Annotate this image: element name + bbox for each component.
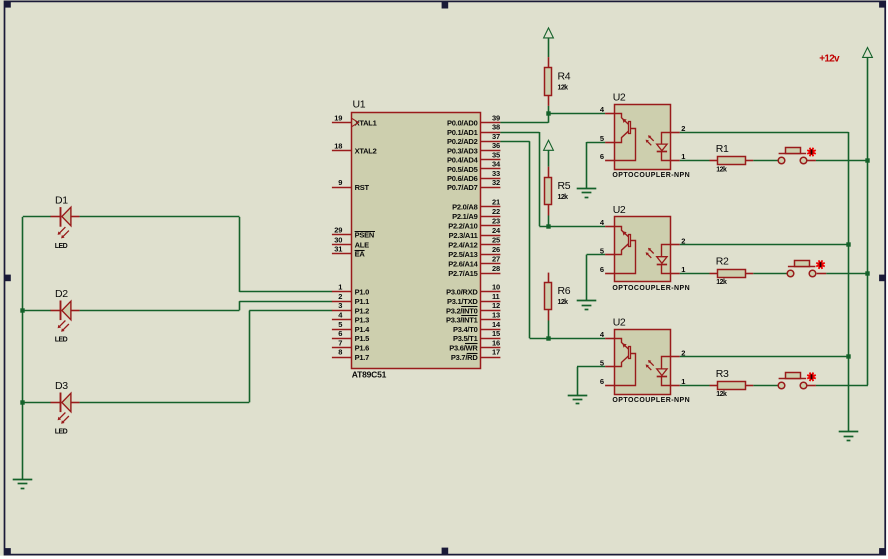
svg-text:LED: LED [55, 429, 68, 436]
U1 pin 31 EA [332, 245, 365, 259]
svg-text:EA: EA [355, 250, 366, 259]
svg-text:6: 6 [600, 377, 604, 386]
wire P0.1 to node B [500, 132, 605, 227]
junction rail-U2c [846, 354, 850, 358]
svg-text:LED: LED [55, 337, 68, 344]
svg-text:P2.3/A11: P2.3/A11 [449, 231, 478, 240]
resistor R3 12k [710, 368, 754, 398]
U1 pin 4 P1.3 [332, 311, 369, 325]
svg-text:P0.2/AD2: P0.2/AD2 [447, 137, 478, 146]
svg-text:P1.3: P1.3 [355, 316, 370, 325]
svg-text:LED: LED [55, 243, 68, 250]
svg-text:36: 36 [492, 141, 500, 150]
wire SW3 right lead [807, 385, 816, 387]
svg-text:XTAL2: XTAL2 [355, 147, 377, 156]
svg-text:R6: R6 [558, 285, 571, 297]
wire D3 to U1 P1.2 [80, 311, 333, 403]
svg-text:RST: RST [355, 183, 370, 192]
ground G1 (LED rail) [13, 480, 33, 489]
svg-text:1: 1 [681, 377, 685, 386]
svg-text:1: 1 [338, 283, 342, 292]
svg-text:2: 2 [681, 124, 685, 133]
svg-text:6: 6 [338, 329, 342, 338]
svg-text:21: 21 [492, 198, 500, 207]
svg-text:37: 37 [492, 132, 500, 141]
U1 pin 34 P0.5/AD5 [447, 160, 501, 174]
wire D2 to U1 P1.1 [80, 301, 333, 310]
U1 pin 38 P0.1/AD1 [447, 123, 500, 137]
resistor R4 with +V power arrow [544, 28, 571, 106]
svg-text:11: 11 [492, 292, 500, 301]
svg-text:P2.6/A14: P2.6/A14 [448, 259, 478, 268]
ground G2 (U2a) [577, 189, 597, 198]
svg-text:P3.5/T1: P3.5/T1 [453, 334, 478, 343]
wire ground rail [848, 132, 850, 432]
ground G4 (U2c) [568, 396, 588, 404]
wire U2b pin5 to ground [587, 255, 606, 301]
svg-text:39: 39 [492, 114, 500, 123]
svg-text:P0.6/AD6: P0.6/AD6 [447, 174, 478, 183]
svg-text:38: 38 [492, 123, 500, 132]
U1 pin 1 P1.0 [332, 283, 369, 297]
svg-text:14: 14 [492, 320, 501, 329]
svg-text:13: 13 [492, 311, 500, 320]
optocoupler U2 (#2) [600, 204, 690, 292]
U1 pin 7 P1.6 [332, 338, 369, 352]
U1 pin 5 P1.4 [332, 320, 370, 334]
svg-text:29: 29 [334, 226, 342, 235]
svg-text:P0.0/AD0: P0.0/AD0 [447, 119, 478, 128]
svg-text:OPTOCOUPLER-NPN: OPTOCOUPLER-NPN [612, 172, 690, 179]
svg-text:2: 2 [338, 292, 342, 301]
resistor R2 12k [710, 256, 754, 286]
svg-text:P3.3/INT1: P3.3/INT1 [446, 316, 478, 325]
svg-text:26: 26 [492, 245, 500, 254]
wire P0.2 to node C [500, 141, 605, 338]
svg-text:U1: U1 [353, 99, 366, 111]
ground G5 (rail) [839, 432, 859, 441]
U1 pin 3 P1.2 [332, 301, 369, 315]
svg-text:12k: 12k [716, 279, 727, 286]
svg-text:P0.1/AD1: P0.1/AD1 [447, 128, 478, 137]
svg-text:P3.0/RXD: P3.0/RXD [446, 288, 478, 297]
resistor R6 [545, 273, 571, 321]
svg-text:24: 24 [492, 226, 501, 235]
resistor R1 12k [710, 143, 754, 173]
svg-text:30: 30 [334, 236, 342, 245]
wire U2c pin5 to ground [577, 367, 605, 396]
svg-text:U2: U2 [613, 204, 626, 216]
wire SW1 right lead [807, 160, 816, 162]
svg-text:P3.2/INT0: P3.2/INT0 [446, 306, 478, 315]
svg-text:32: 32 [492, 178, 500, 187]
svg-text:OPTOCOUPLER-NPN: OPTOCOUPLER-NPN [612, 285, 690, 292]
svg-text:12: 12 [492, 301, 500, 310]
svg-text:P2.0/A8: P2.0/A8 [452, 203, 477, 212]
svg-text:35: 35 [492, 150, 500, 159]
svg-text:P1.7: P1.7 [355, 353, 370, 362]
wire U2a pin5 to ground [587, 142, 606, 188]
svg-text:P0.5/AD5: P0.5/AD5 [447, 165, 478, 174]
svg-text:OPTOCOUPLER-NPN: OPTOCOUPLER-NPN [612, 397, 690, 404]
wire U2b pin1 to R2 [680, 273, 710, 275]
LED D2 [51, 288, 80, 344]
svg-text:R4: R4 [558, 70, 571, 82]
svg-text:P2.4/A12: P2.4/A12 [448, 241, 477, 250]
wire D1 to U1 P1.0 [80, 217, 333, 292]
svg-text:P1.5: P1.5 [355, 334, 370, 343]
svg-text:33: 33 [492, 169, 500, 178]
U1 pin 22 P2.1/A9 [452, 207, 500, 221]
U1 pin 35 P0.4/AD4 [447, 150, 500, 164]
svg-text:U2: U2 [613, 92, 626, 104]
wire R2 to button SW2 [753, 273, 787, 275]
U1 pin 25 P2.4/A12 [448, 235, 500, 249]
svg-text:P2.2/A10: P2.2/A10 [448, 222, 477, 231]
wire SW3 to +12v rail [816, 385, 868, 387]
svg-text:D3: D3 [55, 380, 68, 392]
U1 pin 17 P3.7/RD [451, 348, 501, 362]
U1 pin 37 P0.2/AD2 [447, 132, 500, 146]
wire U2c pin2 to rail [680, 356, 849, 358]
svg-text:16: 16 [492, 338, 500, 347]
U1 pin 6 P1.5 [332, 329, 369, 343]
svg-text:12k: 12k [558, 85, 569, 92]
optocoupler U2 (#3) [600, 316, 690, 404]
svg-text:12k: 12k [558, 299, 569, 306]
optocoupler U2 (#1) [600, 92, 690, 180]
svg-text:12k: 12k [558, 194, 569, 201]
wire R4 to node A [548, 106, 550, 114]
wire LED cathode rail [22, 217, 24, 480]
wire R6 to node C [548, 321, 550, 339]
U1 pin 21 P2.0/A8 [452, 198, 500, 212]
junction rail-SW2 [865, 271, 869, 275]
svg-text:8: 8 [338, 348, 342, 357]
wire U2b pin2 to rail [680, 244, 849, 246]
svg-text:19: 19 [334, 114, 342, 123]
svg-text:7: 7 [338, 338, 342, 347]
svg-text:P0.3/AD3: P0.3/AD3 [447, 146, 478, 155]
LED D1 [51, 195, 80, 251]
svg-text:18: 18 [334, 142, 342, 151]
U1 pin 14 P3.4/T0 [453, 320, 501, 334]
svg-text:R2: R2 [716, 256, 729, 268]
wire U2a pin1 to R1 [680, 160, 710, 162]
svg-text:34: 34 [492, 160, 501, 169]
U1 pin 28 P2.7/A15 [448, 264, 500, 278]
svg-text:P1.0: P1.0 [355, 288, 370, 297]
svg-text:P1.6: P1.6 [355, 344, 370, 353]
svg-text:R5: R5 [558, 180, 571, 192]
svg-text:1: 1 [681, 265, 685, 274]
svg-text:3: 3 [338, 301, 342, 310]
svg-text:23: 23 [492, 217, 500, 226]
svg-text:28: 28 [492, 264, 500, 273]
wire rail to D1 [23, 216, 51, 218]
U1 pin 26 P2.5/A13 [448, 245, 500, 259]
U1 pin 2 P1.1 [332, 292, 369, 306]
resistor R5 with +V power arrow [544, 140, 571, 215]
svg-text:5: 5 [338, 320, 342, 329]
svg-text:P3.1/TXD: P3.1/TXD [447, 297, 478, 306]
U1 pin 9 RST [332, 178, 370, 192]
wire SW2 right lead [817, 273, 827, 275]
wire +12v rail [867, 57, 869, 385]
svg-text:12k: 12k [716, 391, 727, 398]
svg-text:P1.1: P1.1 [355, 297, 370, 306]
U1 pin 29 PSEN [332, 226, 375, 240]
svg-text:P2.1/A9: P2.1/A9 [452, 212, 477, 221]
power +12v arrow [819, 48, 872, 65]
push button SW1 [778, 148, 816, 164]
wire SW1 to +12v rail [816, 160, 868, 162]
junction rail-U2b [846, 242, 850, 246]
junction node B [546, 224, 550, 228]
push button SW2 [787, 260, 825, 277]
svg-text:17: 17 [492, 348, 500, 357]
U1 pin 8 P1.7 [332, 348, 369, 362]
wire rail to D2 [23, 310, 51, 312]
svg-text:25: 25 [492, 235, 500, 244]
junction rail-SW1 [865, 158, 869, 162]
junction node C [546, 336, 550, 340]
svg-text:D2: D2 [55, 288, 68, 300]
svg-text:P2.7/A15: P2.7/A15 [448, 269, 477, 278]
U1 pin 30 ALE [332, 236, 369, 250]
wire P0.0 to node A [500, 113, 548, 122]
svg-text:P2.5/A13: P2.5/A13 [448, 250, 477, 259]
U1 pin 11 P3.1/TXD [447, 292, 500, 306]
svg-text:U2: U2 [613, 316, 626, 328]
ground G3 (U2b) [577, 301, 597, 310]
junction rail-D2 [20, 308, 24, 312]
svg-text:ALE: ALE [355, 241, 369, 250]
U1 pin 23 P2.2/A10 [448, 217, 500, 231]
wire node A to U2a pin4 [548, 113, 605, 115]
svg-text:15: 15 [492, 329, 500, 338]
junction rail-D3 [20, 400, 24, 404]
svg-text:P0.4/AD4: P0.4/AD4 [447, 156, 479, 165]
U1 pin 18 XTAL2 [332, 142, 377, 156]
wire R1 to button SW1 [753, 160, 778, 162]
wire U2a pin2 to rail [680, 132, 849, 134]
wire SW2 to +12v rail [826, 273, 868, 275]
U1 pin 15 P3.5/T1 [453, 329, 500, 343]
svg-text:6: 6 [600, 265, 604, 274]
svg-text:22: 22 [492, 207, 500, 216]
U1 pin 12 P3.2/INT0 [446, 301, 500, 315]
IC U1 body [352, 99, 481, 380]
svg-text:P0.7/AD7: P0.7/AD7 [447, 183, 478, 192]
svg-text:P1.2: P1.2 [355, 306, 370, 315]
wire R3 to button SW3 [753, 385, 778, 387]
svg-text:AT89C51: AT89C51 [352, 369, 387, 379]
U1 pin 36 P0.3/AD3 [447, 141, 500, 155]
svg-text:12k: 12k [716, 166, 727, 173]
push button SW3 [778, 373, 816, 389]
svg-text:9: 9 [338, 178, 342, 187]
U1 pin 27 P2.6/A14 [448, 254, 500, 268]
svg-text:P1.4: P1.4 [355, 325, 371, 334]
LED D3 [51, 380, 80, 436]
svg-text:P3.4/T0: P3.4/T0 [453, 325, 478, 334]
svg-text:P3.7/RD: P3.7/RD [451, 353, 478, 362]
U1 pin 24 P2.3/A11 [449, 226, 501, 240]
U1 pin 19 XTAL1 [332, 114, 377, 128]
wire U2c pin1 to R3 [680, 385, 710, 387]
wire rail to D3 [23, 402, 51, 404]
svg-text:R3: R3 [716, 368, 729, 380]
svg-text:10: 10 [492, 283, 500, 292]
U1 pin 10 P3.0/RXD [446, 283, 500, 297]
junction node A [546, 111, 550, 115]
svg-text:R1: R1 [716, 143, 729, 155]
svg-text:P3.6/WR: P3.6/WR [449, 344, 478, 353]
svg-text:6: 6 [600, 152, 604, 161]
svg-text:5: 5 [600, 134, 604, 143]
svg-text:31: 31 [334, 245, 342, 254]
svg-text:27: 27 [492, 254, 500, 263]
U1 pin 16 P3.6/WR [449, 338, 500, 352]
U1 pin 13 P3.3/INT1 [446, 311, 500, 325]
U1 pin 33 P0.6/AD6 [447, 169, 500, 183]
wire R5 to node B [548, 216, 550, 227]
U1 pin 39 P0.0/AD0 [447, 114, 500, 128]
svg-text:+12v: +12v [819, 53, 840, 64]
svg-text:D1: D1 [55, 195, 68, 207]
U1 pin 32 P0.7/AD7 [447, 178, 500, 192]
